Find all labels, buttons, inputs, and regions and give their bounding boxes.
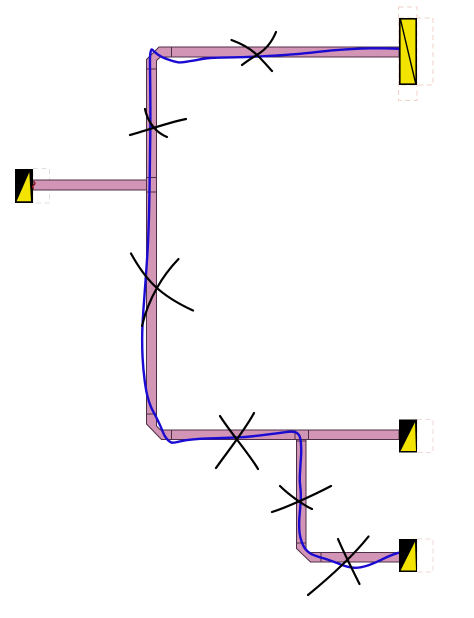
conduit vertical drop and bottom run [297,440,401,563]
annotation dashed box right of device FX4 [33,169,50,204]
conduit joint line bottom run [320,553,322,563]
conduit joint line lower tee right [308,430,310,440]
annotation dashed box right of device FX2 [417,420,433,453]
conduit joint line drop bottom elbow [297,542,307,544]
annotation dashed box tall around device FX1 [399,7,418,101]
tick mark X2 stroke a [145,109,167,137]
tick mark X5 stroke a [272,486,331,512]
tick mark X2 stroke b [130,119,186,135]
device FX1 top-right fixture [400,19,416,84]
tick mark X5 stroke b [280,486,312,509]
conduit joint line bottom elbow horizontal [171,430,173,440]
conduit joint line top elbow vertical [147,68,157,70]
wire W1 from device FX1 to device FX3 [142,48,407,568]
conduit joint line drop top [297,440,306,442]
device FX3 bottom-right fixture [399,539,417,572]
annotation dashed box right of device FX3 [417,539,433,572]
connector marks at left device [33,182,35,189]
tick mark X4 stroke b [220,416,258,469]
device FX2 middle-right fixture [399,420,417,453]
annotation dashed box wide around device FX1 [399,18,433,85]
conduit joint line top elbow horizontal [171,47,173,57]
tick mark X6 stroke a [308,537,369,596]
tick mark X4 stroke a [216,413,254,468]
tick mark X1 stroke a [232,40,273,71]
tick mark X3 stroke a [131,254,193,311]
tick mark X1 stroke b [242,32,276,65]
conduit main C-run with elbows [147,47,400,440]
device FX4 left fixture [15,169,33,203]
conduit joint line tee bottom [147,191,157,193]
conduit joint line tee top [147,177,157,179]
conduit joint line lower tee left [294,430,296,440]
conduit branch to left device [33,180,147,190]
tick mark X3 stroke b [142,259,179,326]
tick mark X6 stroke b [338,539,360,584]
conduit joint line bottom elbow vertical [147,413,157,415]
